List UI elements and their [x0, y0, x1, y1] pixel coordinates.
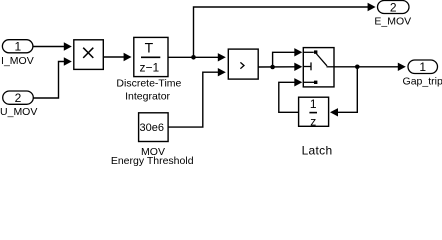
svg-text:2: 2 [390, 0, 397, 14]
constant block 30e6 [111, 113, 194, 167]
svg-text:Integrator: Integrator [125, 90, 170, 102]
wire 30e6 to Relational Operator input 2 [168, 68, 226, 127]
wire Switch output to outport Gap_trip [334, 63, 406, 71]
wire Relational Operator to Switch control input [258, 63, 302, 71]
svg-text:z−1: z−1 [140, 61, 160, 75]
unit delay block 1/z (mirrored) [299, 97, 329, 128]
node: feedback branch point [355, 65, 360, 70]
node: branch point to E_MOV [191, 55, 196, 60]
svg-text:I_MOV: I_MOV [1, 55, 34, 67]
wire Product to Integrator [103, 53, 131, 61]
svg-text:U_MOV: U_MOV [0, 106, 37, 118]
inport In2 (U_MOV) [0, 91, 37, 118]
discrete-time integrator block [116, 37, 181, 102]
wire branch up and right to outport E_MOV [194, 3, 376, 58]
wire In2 to Product input 2 [33, 57, 72, 98]
wire Unit Delay output to Switch input 3 [279, 78, 303, 112]
product block [74, 40, 104, 70]
svg-text:1: 1 [419, 60, 426, 74]
node: branch after relational operator [270, 65, 275, 70]
svg-text:z: z [310, 114, 316, 128]
svg-text:1: 1 [310, 97, 317, 111]
svg-text:Energy Threshold: Energy Threshold [111, 155, 194, 167]
svg-text:2: 2 [15, 91, 22, 105]
svg-text:Latch: Latch [302, 143, 333, 157]
outport Out1 (Gap_trip) [403, 60, 442, 88]
switch block [303, 48, 334, 87]
relational operator block > [228, 49, 258, 79]
svg-text:Discrete-Time: Discrete-Time [116, 78, 181, 90]
inport In1 (I_MOV) [1, 40, 34, 67]
wire branch up to Switch input 1 [273, 48, 303, 67]
outport Out2 (E_MOV) [374, 0, 411, 27]
svg-text:Gap_trip: Gap_trip [403, 76, 442, 88]
svg-text:T: T [145, 39, 154, 55]
svg-text:E_MOV: E_MOV [374, 16, 411, 28]
wire feedback down to Unit Delay input [330, 67, 357, 117]
wire Integrator to Relational Operator input 1, with branch node [168, 53, 226, 61]
wire In1 to Product input 1 [33, 42, 72, 50]
svg-text:30e6: 30e6 [140, 122, 164, 134]
svg-text:1: 1 [14, 40, 21, 54]
